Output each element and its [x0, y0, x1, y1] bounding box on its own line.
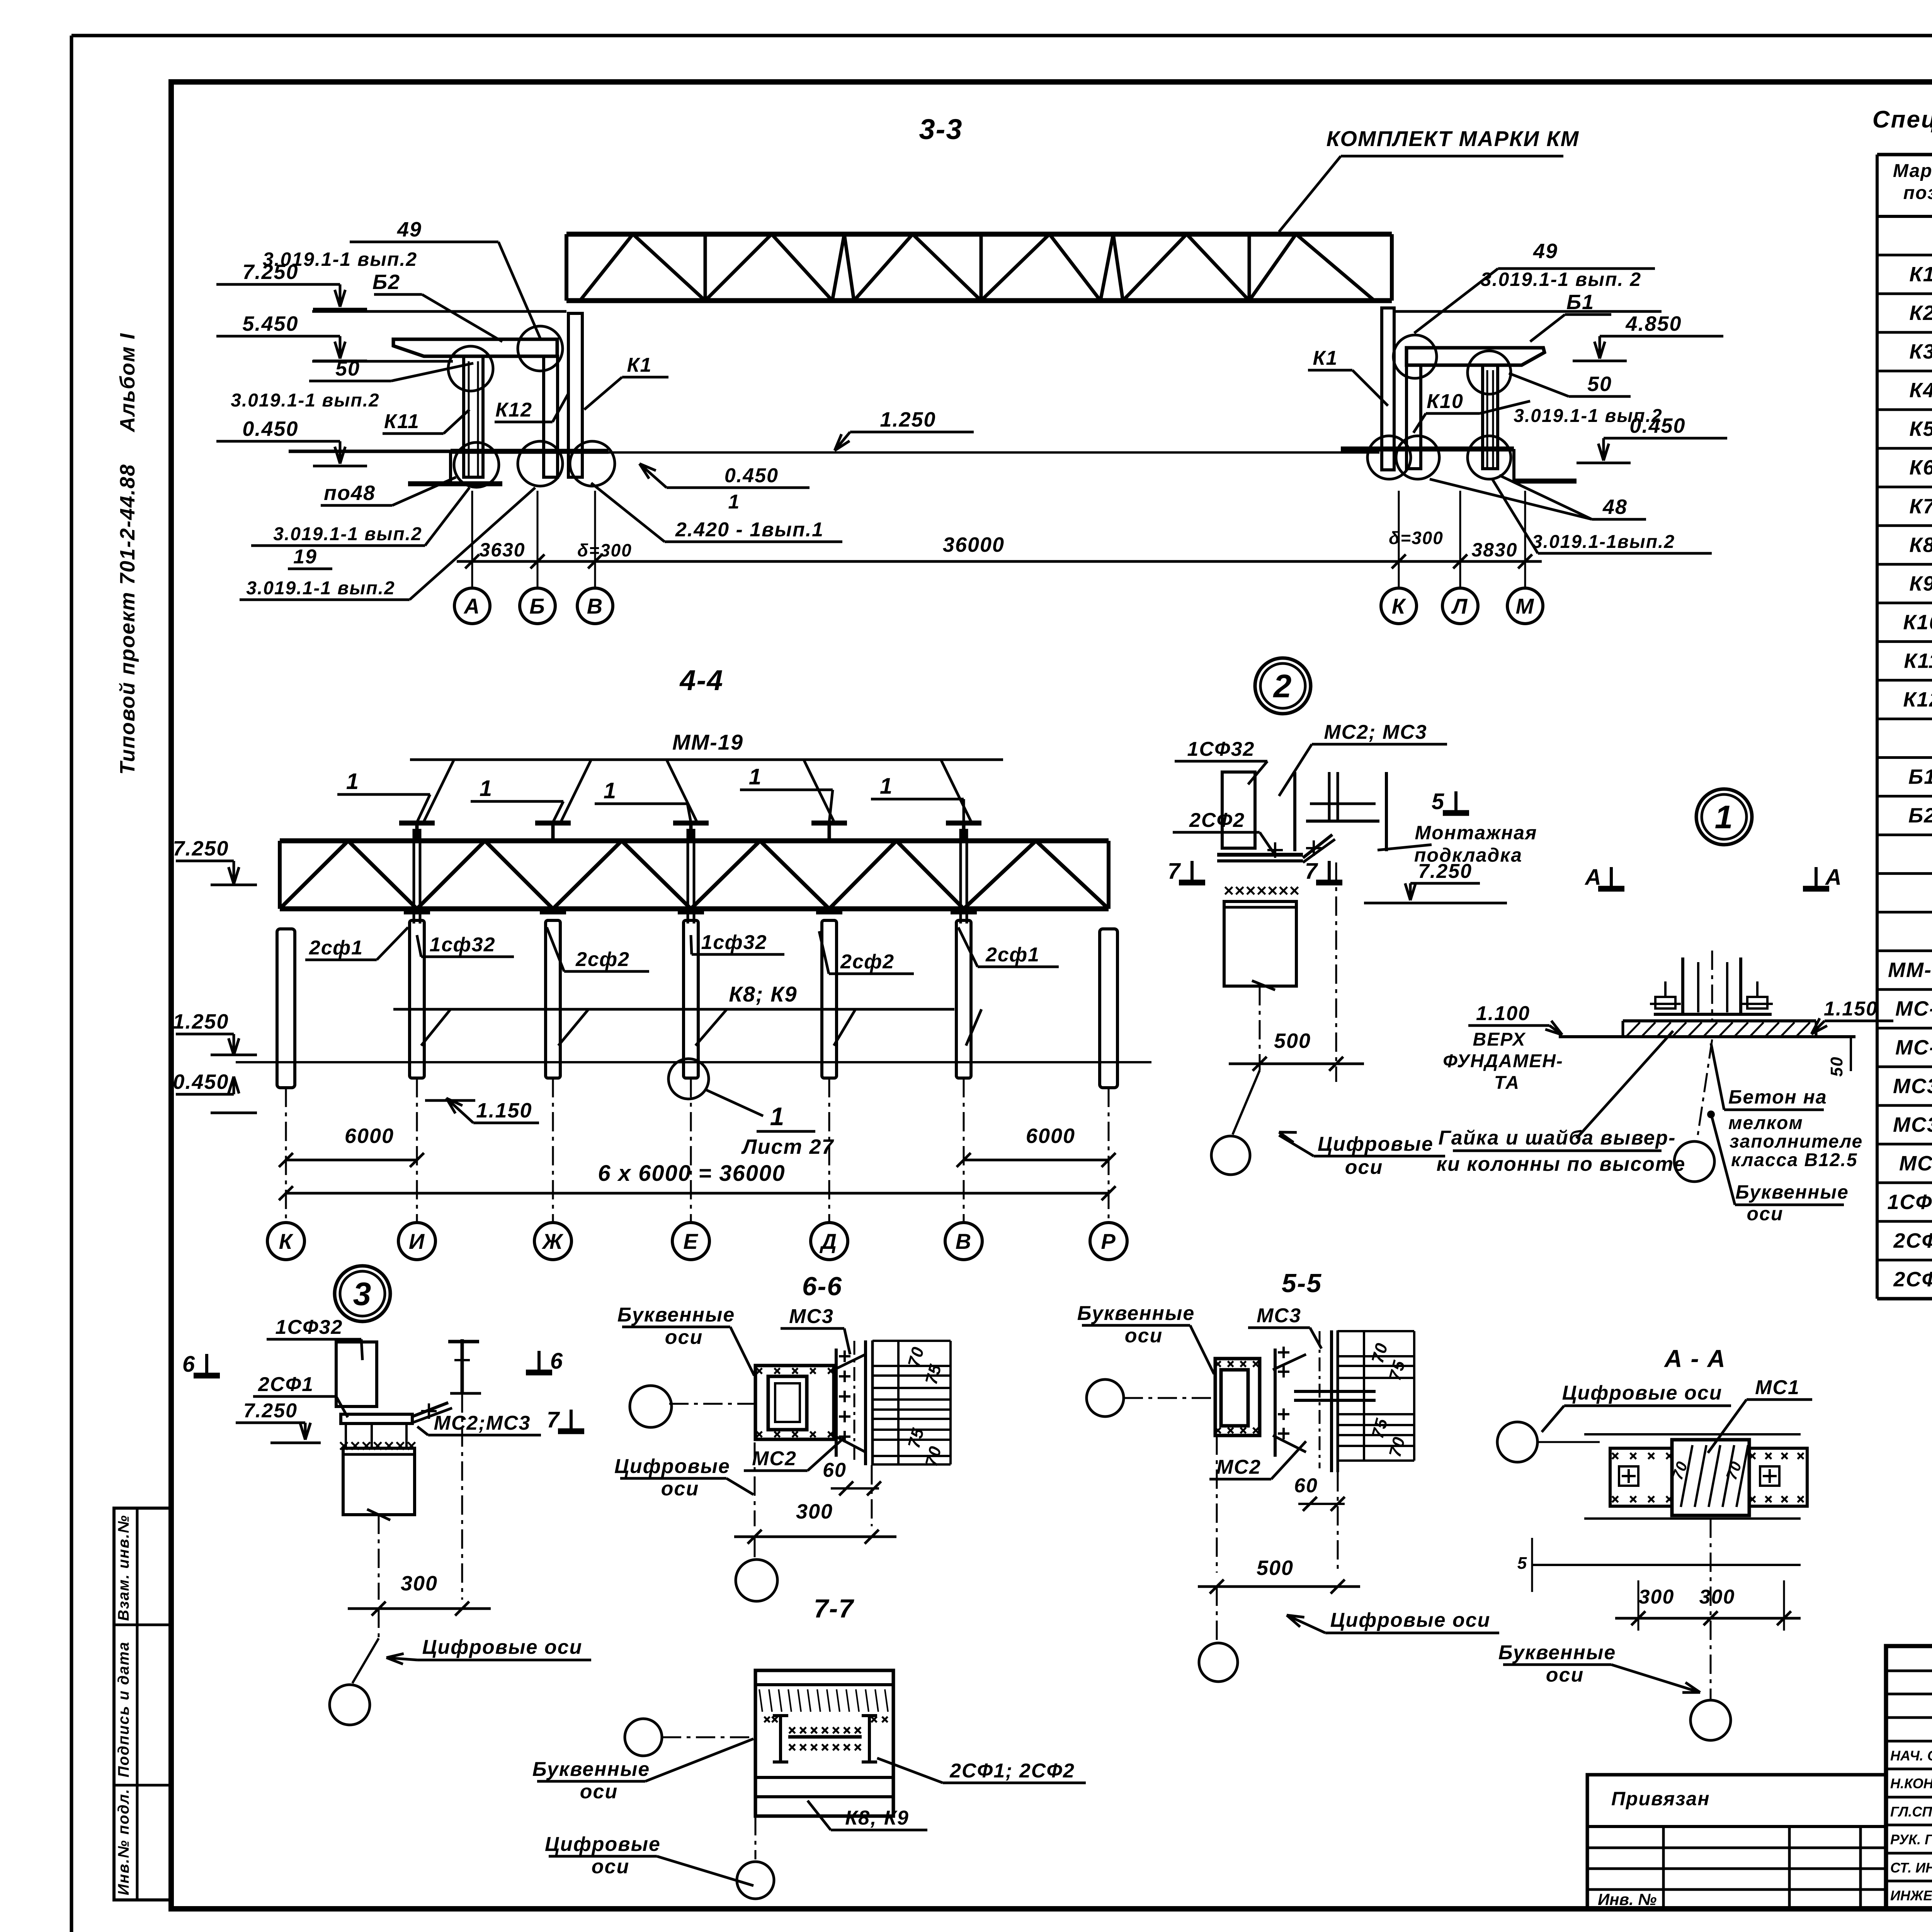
- svg-text:5-5: 5-5: [1282, 1269, 1322, 1298]
- svg-text:3.019.1-1 вып. 2: 3.019.1-1 вып. 2: [1481, 269, 1641, 290]
- detail 3 axes and dim: [378, 1515, 380, 1600]
- svg-text:1: 1: [480, 776, 493, 801]
- svg-text:М: М: [1516, 594, 1535, 618]
- sheet left edge: [70, 36, 73, 1932]
- svg-text:К11: К11: [1904, 649, 1932, 672]
- svg-text:2: 2: [1273, 668, 1293, 704]
- svg-text:19: 19: [293, 546, 317, 568]
- svg-text:50: 50: [1827, 1056, 1846, 1077]
- svg-text:МС2: МС2: [1216, 1456, 1261, 1478]
- svg-text:поз.: поз.: [1903, 183, 1932, 203]
- svg-text:К1: К1: [1313, 347, 1338, 369]
- right columns of section 3-3: [1406, 348, 1544, 365]
- svg-text:МС2; МС3: МС2; МС3: [1324, 721, 1427, 743]
- svg-text:1: 1: [346, 769, 359, 794]
- 6-6 column section: [755, 1366, 834, 1439]
- level line 7.250 section 3-3: [312, 310, 566, 313]
- svg-text:Гайка и шайба вывер-: Гайка и шайба вывер-: [1439, 1127, 1676, 1149]
- svg-text:7-7: 7-7: [814, 1594, 854, 1623]
- svg-text:оси: оси: [1546, 1664, 1584, 1686]
- svg-text:К12: К12: [495, 399, 532, 421]
- detail 1 base plate and bolts: [1654, 1013, 1772, 1016]
- svg-text:2СФ1: 2СФ1: [258, 1373, 314, 1396]
- svg-text:СТ. ИНЖ.: СТ. ИНЖ.: [1890, 1860, 1932, 1876]
- svg-text:Буквенные: Буквенные: [532, 1758, 650, 1781]
- svg-text:Лист 27: Лист 27: [741, 1135, 834, 1158]
- svg-text:300: 300: [796, 1500, 833, 1523]
- svg-text:300: 300: [1699, 1586, 1735, 1608]
- svg-text:2СФ2: 2СФ2: [1189, 809, 1245, 832]
- svg-text:49: 49: [397, 218, 422, 241]
- svg-text:1СФ32: 1СФ32: [276, 1316, 343, 1338]
- svg-text:2.420 - 1вып.1: 2.420 - 1вып.1: [675, 519, 824, 541]
- svg-text:оси: оси: [665, 1326, 703, 1349]
- svg-text:Цифровые: Цифровые: [545, 1833, 661, 1855]
- svg-text:МС33: МС33: [1893, 1075, 1932, 1098]
- svg-text:5: 5: [1517, 1554, 1527, 1573]
- svg-text:7: 7: [547, 1407, 560, 1432]
- node circle 1 list 27: [668, 1059, 709, 1099]
- svg-text:Спецификация к схеме распо: Спецификация к схеме расположения колонн…: [1872, 106, 1932, 133]
- svg-text:1сф32: 1сф32: [429, 934, 495, 956]
- svg-text:3630: 3630: [479, 539, 525, 561]
- svg-text:ТА: ТА: [1494, 1073, 1520, 1093]
- svg-text:0.450: 0.450: [724, 464, 779, 487]
- svg-text:300: 300: [1639, 1586, 1675, 1608]
- svg-text:36000: 36000: [943, 533, 1005, 556]
- svg-text:Б2: Б2: [1908, 804, 1932, 827]
- 5-5 beam flange lines: [1338, 1330, 1414, 1332]
- svg-text:оси: оси: [661, 1478, 699, 1500]
- svg-text:7: 7: [1168, 859, 1181, 884]
- axis circles 3-3: [471, 577, 473, 588]
- title block frame: [1886, 1646, 1932, 1909]
- svg-text:3.019.1-1 вып.2: 3.019.1-1 вып.2: [263, 248, 417, 270]
- fachwerk columns 4-4: [410, 920, 424, 1078]
- roof truss 4-4: [280, 838, 1109, 844]
- svg-text:Марка: Марка: [1893, 161, 1932, 181]
- detail 1 column stub: [1681, 957, 1684, 1014]
- A-A plan: [1584, 1433, 1801, 1435]
- svg-text:Д: Д: [820, 1229, 837, 1253]
- svg-text:А: А: [463, 594, 480, 618]
- svg-text:3.019.1-1вып.2: 3.019.1-1вып.2: [1532, 532, 1675, 552]
- 5-5 plates: [1274, 1349, 1277, 1457]
- 5-5 column section: [1215, 1359, 1260, 1435]
- svg-text:3.019.1-1 вып.2: 3.019.1-1 вып.2: [273, 524, 422, 544]
- left margin stamp boxes: [114, 1508, 171, 1900]
- svg-text:ВЕРХ: ВЕРХ: [1473, 1029, 1526, 1050]
- svg-text:7.250: 7.250: [243, 1400, 298, 1422]
- svg-text:МС-2: МС-2: [1895, 997, 1932, 1020]
- svg-text:МС-3: МС-3: [1895, 1036, 1932, 1059]
- svg-text:1: 1: [880, 774, 893, 799]
- svg-text:МС3: МС3: [789, 1305, 834, 1328]
- svg-text:Б2: Б2: [372, 270, 400, 294]
- svg-text:1.250: 1.250: [880, 408, 936, 431]
- 6-6 connection plates: [835, 1349, 838, 1457]
- svg-text:КОМПЛЕКТ МАРКИ КМ: КОМПЛЕКТ МАРКИ КМ: [1327, 126, 1580, 151]
- svg-text:К8; К9: К8; К9: [729, 982, 797, 1006]
- svg-text:7.250: 7.250: [1418, 860, 1472, 883]
- svg-text:300: 300: [401, 1572, 438, 1595]
- detail 1 grout strip: [1623, 1019, 1816, 1022]
- svg-text:2СФ1; 2СФ2: 2СФ1; 2СФ2: [949, 1760, 1075, 1782]
- svg-text:6000: 6000: [345, 1124, 394, 1148]
- svg-text:МС34: МС34: [1893, 1113, 1932, 1136]
- svg-text:Цифровые: Цифровые: [1318, 1133, 1434, 1155]
- svg-text:ММ-19: ММ-19: [1888, 959, 1932, 982]
- svg-text:1сф32: 1сф32: [701, 931, 767, 954]
- detail 2 node plates: [1217, 853, 1303, 857]
- detail 1 circle: [1696, 789, 1752, 845]
- svg-text:1: 1: [1715, 799, 1734, 835]
- svg-text:В: В: [587, 594, 603, 618]
- svg-text:6: 6: [182, 1352, 196, 1377]
- svg-text:К8: К8: [1909, 533, 1932, 556]
- svg-text:δ=300: δ=300: [1389, 528, 1444, 548]
- svg-text:1СФ32: 1СФ32: [1887, 1190, 1932, 1214]
- svg-text:Л: Л: [1451, 594, 1468, 618]
- svg-text:5: 5: [1432, 789, 1445, 814]
- svg-text:Р: Р: [1101, 1229, 1116, 1253]
- detail 1 axis: [1711, 951, 1713, 1020]
- svg-text:И: И: [409, 1229, 425, 1253]
- svg-text:оси: оси: [1345, 1156, 1383, 1179]
- svg-text:К6: К6: [1909, 456, 1932, 479]
- svg-text:А: А: [1584, 865, 1602, 890]
- svg-text:6: 6: [550, 1349, 563, 1374]
- svg-text:К1: К1: [1909, 263, 1932, 286]
- detail 3 circle: [335, 1266, 390, 1321]
- detail 2 lower column: [1225, 887, 1232, 894]
- svg-text:класса В12.5: класса В12.5: [1731, 1150, 1858, 1170]
- svg-text:К10: К10: [1427, 390, 1464, 413]
- svg-text:по48: по48: [324, 481, 376, 505]
- svg-text:500: 500: [1257, 1556, 1294, 1580]
- svg-text:3.019.1-1 вып.2: 3.019.1-1 вып.2: [231, 390, 380, 411]
- svg-text:2сф1: 2сф1: [985, 944, 1040, 966]
- svg-text:3830: 3830: [1471, 539, 1517, 561]
- svg-text:1: 1: [604, 778, 617, 803]
- detail 2 column stub: [1222, 772, 1255, 848]
- svg-text:НАЧ. ОТД.: НАЧ. ОТД.: [1890, 1748, 1932, 1764]
- svg-text:Буквенные: Буквенные: [1735, 1181, 1849, 1203]
- svg-text:Б: Б: [529, 594, 546, 618]
- svg-text:К8; К9: К8; К9: [845, 1807, 909, 1829]
- svg-text:В: В: [956, 1229, 972, 1253]
- svg-text:Цифровые оси: Цифровые оси: [1562, 1382, 1723, 1404]
- 7-7 I beam: [779, 1716, 782, 1762]
- svg-text:К3: К3: [1909, 340, 1932, 363]
- svg-text:Монтажная: Монтажная: [1415, 822, 1537, 844]
- specification table grid: [1877, 153, 1932, 156]
- svg-text:2сф1: 2сф1: [309, 937, 363, 959]
- svg-text:К2: К2: [1909, 301, 1932, 325]
- svg-text:К9: К9: [1909, 572, 1932, 595]
- svg-text:7.250: 7.250: [173, 837, 229, 860]
- svg-text:оси: оси: [580, 1781, 618, 1803]
- svg-text:6000: 6000: [1026, 1124, 1075, 1148]
- svg-text:1: 1: [749, 764, 762, 789]
- dimensions 4-4: [286, 1159, 417, 1162]
- svg-text:0.450: 0.450: [173, 1070, 229, 1094]
- svg-text:Бетон на: Бетон на: [1728, 1086, 1827, 1108]
- svg-text:Инв. №: Инв. №: [1598, 1890, 1656, 1908]
- 6-6 axis circle left: [630, 1386, 672, 1427]
- sheet top edge: [71, 34, 1932, 37]
- svg-text:Б1: Б1: [1908, 765, 1932, 789]
- svg-text:ки колонны по высоте: ки колонны по высоте: [1437, 1153, 1686, 1175]
- svg-text:Цифровые: Цифровые: [614, 1455, 730, 1478]
- svg-text:К: К: [1392, 594, 1406, 618]
- svg-text:Б1: Б1: [1566, 291, 1594, 314]
- svg-text:2сф2: 2сф2: [840, 951, 895, 973]
- level line 5.450 section 3-3: [312, 360, 453, 363]
- detail 2 axes: [1259, 986, 1261, 1070]
- svg-text:РУК. ГР.: РУК. ГР.: [1890, 1832, 1932, 1847]
- svg-text:ИНЖЕН.: ИНЖЕН.: [1890, 1888, 1932, 1903]
- hanger plates and struts 4-4: [399, 821, 435, 826]
- svg-text:3: 3: [353, 1276, 372, 1312]
- svg-text:ММ-19: ММ-19: [672, 730, 743, 754]
- svg-text:Подпись и дата: Подпись и дата: [115, 1641, 132, 1777]
- svg-text:1: 1: [770, 1102, 785, 1131]
- svg-text:6-6: 6-6: [802, 1272, 842, 1301]
- svg-text:Инв.№ подл.: Инв.№ подл.: [115, 1788, 132, 1895]
- svg-text:Буквенные: Буквенные: [1077, 1302, 1195, 1325]
- svg-text:5.450: 5.450: [242, 312, 298, 335]
- svg-text:4.850: 4.850: [1625, 312, 1682, 335]
- svg-text:Буквенные: Буквенные: [617, 1304, 735, 1326]
- A-A dims: [1584, 1517, 1801, 1520]
- svg-text:МС3: МС3: [1257, 1304, 1301, 1327]
- svg-text:ГЛ.СПЕЦ.: ГЛ.СПЕЦ.: [1890, 1804, 1932, 1820]
- svg-text:Альбом I: Альбом I: [116, 333, 139, 433]
- svg-text:К11: К11: [384, 410, 420, 433]
- svg-text:0.450: 0.450: [242, 417, 298, 440]
- svg-text:49: 49: [1533, 240, 1558, 263]
- svg-text:δ=300: δ=300: [577, 540, 632, 560]
- svg-text:К5: К5: [1909, 417, 1932, 440]
- svg-text:мелком: мелком: [1728, 1113, 1803, 1133]
- svg-text:3.019.1-1 вып.2: 3.019.1-1 вып.2: [246, 578, 395, 599]
- svg-text:Ж: Ж: [541, 1229, 564, 1253]
- svg-text:50: 50: [1587, 372, 1612, 396]
- privyazan box: [1587, 1775, 1886, 1909]
- svg-text:1: 1: [728, 491, 740, 513]
- svg-text:7: 7: [1305, 859, 1318, 884]
- svg-text:К: К: [279, 1229, 294, 1253]
- detail 2 beam end: [1293, 772, 1296, 851]
- 7-7 hatch top: [759, 1689, 762, 1712]
- svg-text:К10: К10: [1903, 611, 1932, 634]
- svg-text:1.100: 1.100: [1476, 1002, 1530, 1025]
- svg-text:500: 500: [1274, 1029, 1311, 1053]
- node circles left 3-3: [454, 442, 499, 487]
- dimension line 3-3: [457, 560, 773, 563]
- svg-text:Типовой проект 701-2-44.88: Типовой проект 701-2-44.88: [116, 464, 139, 775]
- node circles right 3-3: [1393, 335, 1437, 378]
- svg-text:МС1: МС1: [1755, 1376, 1800, 1399]
- left columns of section 3-3: [393, 339, 557, 356]
- svg-text:А: А: [1825, 865, 1842, 890]
- svg-text:60: 60: [1294, 1475, 1318, 1497]
- svg-text:А - А: А - А: [1663, 1345, 1726, 1372]
- svg-text:оси: оси: [592, 1855, 629, 1878]
- svg-text:4-4: 4-4: [679, 664, 724, 696]
- roof truss 3-3: [566, 232, 1392, 237]
- svg-text:МС1: МС1: [1899, 1152, 1932, 1175]
- svg-text:Взам. инв.№: Взам. инв.№: [115, 1515, 132, 1621]
- svg-text:1СФ32: 1СФ32: [1187, 738, 1255, 760]
- detail 3 upper column: [336, 1342, 377, 1406]
- svg-text:ФУНДАМЕН-: ФУНДАМЕН-: [1443, 1051, 1563, 1071]
- axis circles 4-4: [285, 1088, 287, 1223]
- svg-text:МС2;МС3: МС2;МС3: [434, 1412, 531, 1434]
- detail 3 bracket MS2 MS3: [412, 1403, 448, 1417]
- svg-text:2сф2: 2сф2: [575, 948, 630, 971]
- svg-text:48: 48: [1602, 495, 1628, 519]
- svg-text:К12: К12: [1903, 688, 1932, 711]
- svg-text:Е: Е: [683, 1229, 698, 1253]
- svg-text:1.250: 1.250: [173, 1010, 229, 1033]
- svg-text:К4: К4: [1909, 379, 1932, 402]
- svg-text:МС2: МС2: [752, 1447, 797, 1470]
- svg-text:К7: К7: [1909, 495, 1932, 518]
- detail 3 node: [341, 1414, 412, 1423]
- svg-text:заполнителе: заполнителе: [1730, 1131, 1863, 1152]
- detail 1 foundation top line: [1559, 1035, 1855, 1038]
- 6-6 beam flange lines: [872, 1340, 951, 1342]
- floor line 4-4: [236, 1061, 1151, 1063]
- detail 2 circle: [1255, 658, 1311, 714]
- detail 3 lower column: [343, 1448, 415, 1515]
- title block small rows: [1886, 1670, 1932, 1672]
- svg-text:Буквенные: Буквенные: [1498, 1641, 1616, 1664]
- svg-text:К1: К1: [627, 354, 652, 376]
- svg-text:1.150: 1.150: [1824, 998, 1878, 1020]
- svg-text:Н.КОНТР.: Н.КОНТР.: [1890, 1776, 1932, 1791]
- svg-text:2СФ2: 2СФ2: [1893, 1268, 1932, 1291]
- svg-text:3.019.1-1 вып.2: 3.019.1-1 вып.2: [1514, 406, 1663, 426]
- svg-text:3-3: 3-3: [919, 113, 963, 145]
- svg-text:50: 50: [335, 357, 360, 380]
- 5-5 bottom axis: [1216, 1435, 1218, 1573]
- svg-text:Цифровые оси: Цифровые оси: [1330, 1609, 1491, 1631]
- svg-text:1.150: 1.150: [476, 1099, 532, 1122]
- svg-text:2СФ1: 2СФ1: [1893, 1229, 1932, 1252]
- svg-text:Цифровые оси: Цифровые оси: [422, 1636, 583, 1658]
- svg-text:оси: оси: [1125, 1325, 1163, 1347]
- 7-7 slab section: [755, 1670, 893, 1816]
- title block signature rows: [1886, 1768, 1932, 1770]
- svg-text:Привязан: Привязан: [1611, 1788, 1710, 1810]
- svg-text:60: 60: [823, 1459, 847, 1481]
